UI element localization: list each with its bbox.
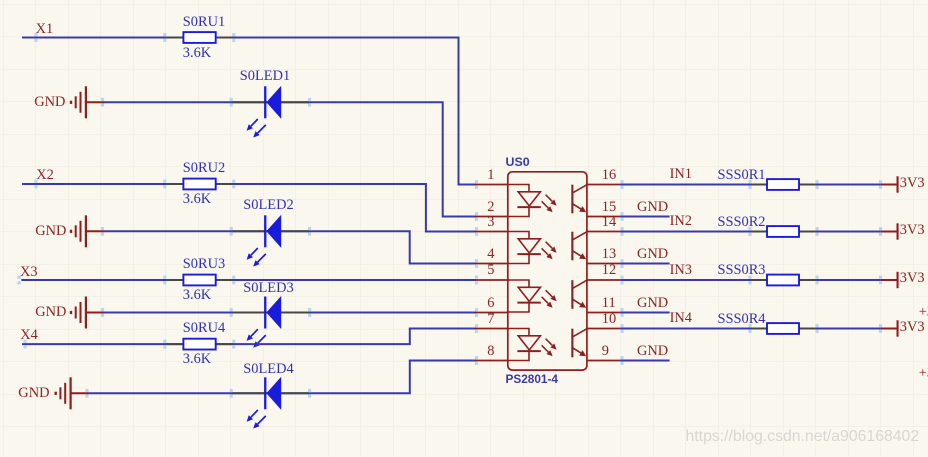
- designator S0RU4: [183, 321, 225, 335]
- optocoupler channel ch4 emission arrows: [542, 339, 557, 357]
- net label GND (pin 15): [637, 200, 668, 214]
- wire pin 11 to GND: [620, 308, 669, 317]
- pin 14 number: [602, 215, 616, 229]
- wire to 3V3 (pin 14): [817, 227, 883, 236]
- resistor S0RU1 body: [183, 32, 215, 43]
- power port 3V3 (pin 16) symbol: [881, 176, 899, 192]
- designator SSS0R1: [718, 168, 766, 182]
- wire net IN3: [620, 276, 750, 285]
- net label X3: [20, 265, 38, 279]
- value 3.6K (S0RU2): [183, 192, 211, 206]
- power port GND3 label: [35, 305, 66, 319]
- resistor SSS0R1 body: [767, 179, 799, 190]
- designator S0RU2: [183, 161, 225, 175]
- wire pin 13 to GND: [620, 259, 669, 268]
- designator SSS0R2: [718, 215, 766, 229]
- pin 2 number: [487, 200, 494, 214]
- resistor SSS0R2 body: [767, 226, 799, 237]
- optocoupler U0 body: [508, 172, 587, 370]
- wire LED1 to pin2: [101, 98, 476, 217]
- power port 3V3 (pin 12) symbol: [881, 272, 899, 288]
- wire pin 15 to GND: [620, 212, 669, 221]
- designator SSS0R4: [718, 312, 766, 326]
- optocoupler channel ch4 internal LED: [508, 329, 541, 361]
- power port +3V3 upper (clipped): [919, 305, 928, 319]
- resistor S0RU3 body: [183, 275, 215, 286]
- optocoupler channel ch1 internal LED: [508, 185, 541, 217]
- net label IN3: [670, 263, 692, 277]
- optocoupler channel ch1 emission arrows: [542, 195, 557, 213]
- resistor S0RU1 leads: [163, 33, 235, 42]
- net label IN1: [670, 167, 692, 181]
- power port 3V3 (pin 10) symbol: [881, 320, 899, 336]
- wire net X2: [22, 180, 476, 232]
- pin 3 stub: [475, 227, 508, 236]
- pin 14 stub: [587, 231, 621, 233]
- resistor S0RU4 leads: [163, 340, 235, 349]
- wire net X4: [22, 329, 476, 349]
- designator S0LED1: [240, 69, 290, 83]
- optocoupler channel ch1 phototransistor: [571, 185, 587, 214]
- power port 3V3 (pin 14) symbol: [881, 223, 899, 239]
- pin 15 stub: [587, 216, 621, 218]
- net label IN4: [670, 311, 692, 325]
- net label GND (pin 13): [637, 247, 668, 261]
- LED S0LED4 leads: [230, 389, 312, 398]
- LED S0LED1 symbol: [247, 86, 282, 138]
- value PS2801-4: [506, 374, 558, 386]
- LED S0LED1 leads: [230, 98, 312, 107]
- pin 8 stub: [475, 356, 508, 365]
- LED S0LED4 symbol: [247, 377, 282, 429]
- wire LED3 to pin6: [101, 308, 476, 317]
- power port GND2 label: [35, 224, 66, 238]
- power port GND3 symbol: [70, 297, 104, 329]
- pin 6 number: [487, 296, 494, 310]
- power port GND4 symbol: [55, 377, 89, 409]
- pin 9 number: [602, 344, 609, 358]
- LED S0LED3 leads: [230, 308, 312, 317]
- pin 13 stub: [587, 263, 621, 265]
- resistor SSS0R2 leads: [748, 227, 818, 236]
- power port 3V3 (pin 14) label: [900, 223, 925, 237]
- value 3.6K (S0RU3): [183, 288, 211, 302]
- net label GND (pin 11): [637, 296, 668, 310]
- optocoupler channel ch3 phototransistor: [571, 280, 587, 309]
- designator S0LED3: [243, 281, 293, 295]
- designator S0RU1: [183, 15, 225, 29]
- power port 3V3 (pin 10) label: [900, 320, 925, 334]
- net label IN2: [670, 214, 692, 228]
- pin 15 number: [602, 200, 616, 214]
- wire to 3V3 (pin 16): [817, 180, 883, 189]
- power port +3V3 lower (clipped): [919, 366, 928, 380]
- pin 6 stub: [475, 308, 508, 317]
- wire to 3V3 (pin 12): [817, 276, 883, 285]
- optocoupler channel ch2 phototransistor: [571, 232, 587, 261]
- optocoupler channel ch4 phototransistor: [571, 329, 587, 358]
- designator SSS0R3: [718, 263, 766, 277]
- power port GND1 label: [34, 95, 65, 109]
- net label X1: [36, 22, 54, 36]
- pin 11 number: [602, 296, 616, 310]
- value 3.6K (S0RU1): [183, 46, 211, 60]
- resistor SSS0R4 leads: [748, 324, 818, 333]
- designator S0RU3: [183, 257, 225, 271]
- wire net X3: [17, 276, 476, 285]
- watermark: [686, 429, 920, 445]
- pin 7 number: [487, 312, 494, 326]
- wire LED4 to pin8: [85, 361, 476, 398]
- wire to 3V3 (pin 10): [817, 324, 883, 333]
- pin 3 number: [487, 215, 494, 229]
- resistor SSS0R4 body: [767, 323, 799, 334]
- wire net IN1: [620, 180, 750, 189]
- wire net IN2: [620, 227, 750, 236]
- net label X4: [20, 328, 38, 342]
- optocoupler channel ch2 internal LED: [508, 232, 541, 264]
- wire net X1: [22, 33, 476, 184]
- wire net IN4: [620, 324, 750, 333]
- power port GND2 symbol: [70, 215, 104, 247]
- resistor S0RU2 leads: [163, 180, 235, 189]
- pin 12 stub: [587, 279, 621, 281]
- pin 8 number: [487, 344, 494, 358]
- power port GND1 symbol: [70, 86, 104, 118]
- pin 11 stub: [587, 312, 621, 314]
- pin 9 stub: [587, 360, 621, 362]
- LED S0LED2 leads: [230, 227, 312, 236]
- pin 12 number: [602, 263, 616, 277]
- resistor SSS0R3 leads: [748, 276, 818, 285]
- resistor S0RU3 leads: [163, 276, 235, 285]
- value 3.6K (S0RU4): [183, 352, 211, 366]
- resistor S0RU4 body: [183, 339, 215, 350]
- wire LED2 to pin4: [101, 227, 476, 264]
- power port 3V3 (pin 12) label: [900, 271, 925, 285]
- designator S0LED2: [243, 198, 293, 212]
- pin 4 stub: [475, 259, 508, 268]
- pin 5 number: [487, 263, 494, 277]
- pin 7 stub: [475, 324, 508, 333]
- net label GND (pin 9): [637, 344, 668, 358]
- optocoupler channel ch3 internal LED: [508, 280, 541, 312]
- pin 1 stub: [475, 180, 508, 189]
- power port GND4 label: [18, 386, 49, 400]
- LED S0LED2 symbol: [247, 215, 282, 267]
- pin 16 stub: [587, 184, 621, 186]
- pin 4 number: [487, 247, 494, 261]
- pin 1 number: [487, 168, 494, 182]
- pin 10 stub: [587, 328, 621, 330]
- net label X2: [36, 168, 54, 182]
- wire pin 9 to GND: [620, 356, 669, 365]
- resistor SSS0R3 body: [767, 275, 799, 286]
- power port 3V3 (pin 16) label: [900, 176, 925, 190]
- optocoupler channel ch3 emission arrows: [542, 290, 557, 308]
- LED S0LED3 symbol: [247, 296, 282, 348]
- pin 10 number: [602, 312, 616, 326]
- resistor SSS0R1 leads: [748, 180, 818, 189]
- pin 13 number: [602, 247, 616, 261]
- designator S0LED4: [243, 362, 293, 376]
- resistor S0RU2 body: [183, 179, 215, 190]
- pin 2 stub: [475, 212, 508, 221]
- designator US0: [506, 156, 530, 168]
- optocoupler channel ch2 emission arrows: [542, 242, 557, 260]
- pin 5 stub: [475, 276, 508, 285]
- pin 16 number: [602, 168, 616, 182]
